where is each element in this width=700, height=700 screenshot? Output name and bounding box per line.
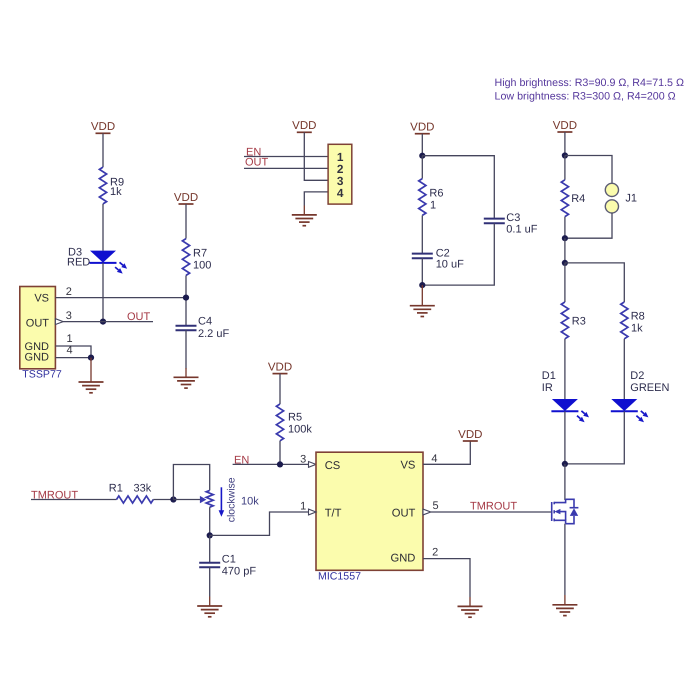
svg-text:4: 4 [67, 345, 73, 357]
svg-text:4: 4 [337, 186, 344, 200]
wire EN to CS pin [233, 463, 309, 465]
svg-text:clockwise: clockwise [226, 477, 238, 522]
wire VS to VDD [423, 441, 470, 464]
ground (MIC) [458, 597, 483, 617]
label TSSP77 [22, 369, 62, 381]
ground (connector) [292, 206, 317, 226]
wire VDD to top node [564, 132, 566, 156]
potentiometer R2 10k [206, 490, 213, 507]
resistor R6 1 [419, 179, 444, 216]
pin 4 number (VS) [431, 453, 437, 465]
svg-text:0.1 uF: 0.1 uF [506, 224, 537, 236]
svg-text:RED: RED [67, 257, 90, 269]
pin 2 number [66, 286, 72, 298]
svg-text:OUT: OUT [392, 508, 416, 520]
svg-text:Low brightness: R3=300 Ω, R4=2: Low brightness: R3=300 Ω, R4=200 Ω [495, 90, 676, 102]
wire VDD to node [421, 134, 423, 156]
resistor R9 1k [99, 167, 124, 204]
wire R5 to EN line [279, 441, 281, 465]
junction R4/J1 top [562, 152, 568, 158]
svg-text:GND: GND [25, 352, 50, 364]
junction D3-OUT [100, 319, 106, 325]
IC U2 MIC1557 box [316, 452, 423, 570]
svg-text:J1: J1 [625, 193, 637, 205]
resistor R7 100 [182, 239, 211, 276]
junction R5-EN [277, 461, 283, 467]
wire D1 to LED bottom node [564, 411, 566, 464]
net label OUT (connector) [245, 156, 269, 168]
label clockwise [226, 477, 238, 522]
jumper J1 [605, 183, 637, 213]
svg-text:R4: R4 [571, 193, 585, 205]
svg-text:VDD: VDD [553, 120, 577, 132]
svg-text:GREEN: GREEN [630, 382, 669, 394]
net label TMROUT (left) [31, 490, 78, 502]
junction LED branch split [562, 260, 568, 266]
svg-text:10k: 10k [241, 496, 259, 508]
wire R9 to D3 [102, 204, 104, 251]
resistor R4 [561, 180, 585, 217]
connector J2 box [328, 144, 352, 204]
power VDD (filter) [410, 122, 434, 134]
svg-text:2: 2 [432, 547, 438, 559]
wire R1 to wiper node [153, 499, 173, 501]
svg-text:D1: D1 [542, 370, 556, 382]
svg-text:1k: 1k [110, 186, 122, 198]
wire OUT to Q1 gate [431, 511, 551, 513]
svg-text:470 pF: 470 pF [222, 565, 257, 577]
power VDD (MIC VS) [458, 429, 482, 441]
svg-text:C4: C4 [198, 316, 212, 328]
pin OUT output triangle [55, 319, 63, 325]
pin T/T input triangle [309, 509, 317, 515]
wire VDD to R7 [185, 204, 187, 239]
pin 5 number (OUT) [433, 500, 439, 512]
wire pin3 OUT stub [63, 321, 153, 323]
wire C1 to ground [209, 567, 211, 596]
junction R4/J1 bottom [562, 235, 568, 241]
svg-text:2.2 uF: 2.2 uF [198, 328, 229, 340]
power VDD (LED driver) [553, 120, 577, 132]
ground (filter) [410, 285, 435, 316]
label 10k [241, 496, 259, 508]
svg-text:High brightness: R3=90.9 Ω, R4: High brightness: R3=90.9 Ω, R4=71.5 Ω [495, 77, 684, 89]
svg-text:C1: C1 [222, 553, 236, 565]
svg-text:OUT: OUT [26, 317, 50, 329]
junction filter top [419, 153, 425, 159]
pin 2 number (GND) [432, 547, 438, 559]
wire D3 to OUT net [102, 263, 104, 322]
wire pot to bottom node [209, 507, 211, 535]
power VDD (R9 branch) [91, 121, 115, 133]
pin 3 number (CS) [300, 453, 306, 465]
svg-text:TMROUT: TMROUT [470, 501, 517, 513]
svg-text:VDD: VDD [410, 122, 434, 134]
power VDD (connector) [292, 120, 316, 132]
ground (C4) [174, 368, 199, 388]
svg-text:OUT: OUT [127, 311, 151, 323]
capacitor C1 470 pF [199, 553, 256, 577]
LED D2 GREEN [611, 370, 670, 422]
svg-text:R7: R7 [193, 248, 207, 260]
svg-text:D2: D2 [630, 370, 644, 382]
resistor R1 33k [109, 483, 154, 504]
svg-text:5: 5 [433, 500, 439, 512]
wire GND pin to ground [423, 559, 470, 597]
svg-text:VDD: VDD [458, 429, 482, 441]
svg-text:R8: R8 [631, 311, 645, 323]
pin CS input triangle [309, 462, 317, 468]
power VDD (R5) [268, 361, 292, 373]
svg-text:C3: C3 [506, 212, 520, 224]
svg-text:VDD: VDD [292, 120, 316, 132]
wire TMROUT stub [31, 499, 117, 501]
pin OUT output triangle [423, 509, 431, 515]
svg-text:4: 4 [431, 453, 437, 465]
wire pin1 GND [55, 346, 91, 358]
svg-text:CS: CS [325, 460, 341, 472]
wire C4 to ground [185, 330, 187, 368]
svg-text:100k: 100k [288, 424, 312, 436]
wire R8 to D2 [623, 339, 625, 399]
wire node to R6 [421, 156, 423, 179]
svg-text:OUT: OUT [245, 156, 269, 168]
pin 3 number [66, 310, 72, 322]
svg-text:VS: VS [34, 292, 49, 304]
svg-text:VDD: VDD [91, 121, 115, 133]
svg-text:R6: R6 [429, 188, 443, 200]
wire pin2 VS to R7/C4 node [55, 297, 186, 299]
svg-text:33k: 33k [134, 483, 152, 495]
wire node to T/T pin [210, 512, 309, 535]
svg-text:R1: R1 [109, 483, 123, 495]
wire R6 to C2 [421, 215, 423, 253]
wire VDD to R9 [102, 133, 104, 167]
svg-text:R5: R5 [288, 412, 302, 424]
wire pin4 GND [55, 357, 91, 359]
capacitor C4 2.2 uF [176, 316, 230, 341]
comment: brightness note [495, 77, 684, 102]
svg-text:GND: GND [391, 553, 416, 565]
IC U1 TSSP77 sensor box [20, 287, 56, 369]
net label TMROUT (MIC) [470, 501, 517, 513]
junction wiper node [170, 496, 176, 502]
label MIC1557 [318, 571, 361, 583]
wire node to R4 [564, 156, 566, 180]
LED D1 IR [542, 370, 589, 422]
wire VDD to R5 [279, 374, 281, 404]
wire R3 to D1 [564, 339, 566, 399]
svg-text:3: 3 [66, 310, 72, 322]
svg-text:VDD: VDD [268, 361, 292, 373]
wire Q1 source to ground [564, 524, 566, 595]
wire node to J1 [565, 156, 612, 184]
wire pin 4 to ground [304, 192, 328, 206]
resistor R5 100k [276, 404, 312, 441]
wire node to C3 branch [422, 156, 494, 219]
wire node to C1 [209, 535, 211, 562]
svg-text:1: 1 [67, 333, 73, 345]
wire C2 to bottom node [421, 258, 423, 285]
svg-text:10 uF: 10 uF [436, 259, 464, 271]
svg-text:MIC1557: MIC1557 [318, 571, 361, 583]
capacitor C3 0.1 uF [484, 212, 538, 236]
wire VDD to pin 3 [304, 132, 328, 180]
capacitor C2 10 uF [412, 248, 464, 271]
net label OUT [127, 311, 151, 323]
svg-text:TSSP77: TSSP77 [22, 369, 62, 381]
net label EN (connector) [246, 147, 261, 159]
junction VS-R7-C4 [183, 295, 189, 301]
svg-text:3: 3 [300, 453, 306, 465]
wire wiper tail [173, 499, 200, 501]
LED D3 RED [67, 247, 127, 274]
junction GND pins [88, 355, 94, 361]
pin 1 number [67, 333, 73, 345]
junction LED bottom [562, 461, 568, 467]
wire OUT to pin 2 [244, 167, 328, 169]
svg-text:VDD: VDD [174, 192, 198, 204]
wire J1 to bottom node [565, 213, 612, 238]
resistor R8 1k [621, 302, 645, 339]
ground (Q1) [552, 595, 577, 616]
ground (TSSP77) [79, 358, 104, 393]
ground (C1) [197, 597, 222, 617]
svg-text:R3: R3 [572, 316, 586, 328]
svg-text:VS: VS [400, 459, 415, 471]
wire node to Q1 drain [564, 464, 566, 500]
svg-text:IR: IR [542, 382, 553, 394]
net label EN (MIC) [234, 454, 249, 466]
power VDD (R7 branch) [174, 192, 198, 204]
pin 4 number [67, 345, 73, 357]
wire R7 to C4 [185, 275, 187, 325]
potentiometer R2 wiper arrow [200, 496, 207, 503]
transistor Q1 N-MOSFET [552, 499, 579, 523]
wire wiper bracket to pot top [173, 465, 209, 500]
wire node to node [564, 238, 566, 263]
pin 1 number (T/T) [300, 501, 306, 513]
wire EN to pin 1 [244, 156, 328, 158]
wire split to R3 [564, 263, 566, 302]
junction filter bottom [419, 282, 425, 288]
wire R4 to bottom node [564, 217, 566, 239]
junction pot bottom [207, 532, 213, 538]
resistor R3 [561, 302, 586, 339]
svg-text:T/T: T/T [325, 508, 342, 520]
svg-text:1k: 1k [631, 323, 643, 335]
svg-text:100: 100 [193, 260, 211, 272]
wire D2 to LED bottom node [565, 411, 624, 464]
svg-text:1: 1 [430, 200, 436, 212]
clockwise arrow [219, 487, 225, 517]
wire split to R8 branch [565, 263, 624, 302]
svg-text:1: 1 [300, 501, 306, 513]
svg-text:2: 2 [66, 286, 72, 298]
wire C3 to bottom node [422, 223, 494, 285]
